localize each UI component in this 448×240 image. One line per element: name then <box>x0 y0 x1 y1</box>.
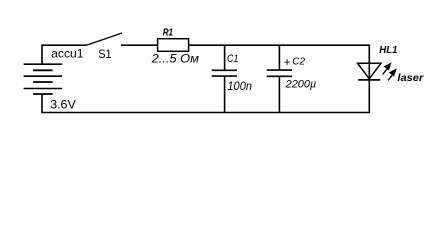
LED HL1 light arrow 1 <box>383 64 391 75</box>
LED HL1 cathode bar <box>358 79 380 81</box>
svg-text:C2: C2 <box>292 56 305 68</box>
capacitor C1 bottom plate <box>212 75 237 77</box>
capacitor C1 top plate <box>212 69 237 71</box>
svg-text:R1: R1 <box>163 27 174 39</box>
battery accu1 long plate 3 <box>24 88 63 90</box>
battery accu1 long plate 1 <box>24 63 63 65</box>
svg-text:laser: laser <box>397 72 424 84</box>
capacitor C1 top wire <box>224 45 226 70</box>
LED HL1 triangle <box>358 63 382 79</box>
wire switch right contact to resistor <box>121 44 158 46</box>
svg-text:2...5 Ом: 2...5 Ом <box>151 54 199 66</box>
battery accu1 long plate 2 <box>24 75 63 77</box>
battery accu1 short plate 2 <box>33 81 53 83</box>
capacitor C2 top plate <box>267 69 292 71</box>
capacitor C2 bottom plate <box>267 75 292 77</box>
LED HL1 light arrow 2 <box>388 70 396 81</box>
svg-text:C1: C1 <box>227 53 238 65</box>
LED HL1 cathode wire <box>368 80 370 113</box>
capacitor C2 top wire <box>278 45 280 70</box>
battery accu1 short plate 3 <box>33 93 53 95</box>
wire bottom rail <box>41 112 370 114</box>
switch S1 lever <box>86 33 122 45</box>
svg-text:2200µ: 2200µ <box>285 78 317 90</box>
LED HL1 anode wire <box>368 45 370 79</box>
svg-text:3.6V: 3.6V <box>50 97 76 111</box>
wire top rail left segment <box>41 44 86 46</box>
svg-text:S1: S1 <box>98 47 112 61</box>
capacitor C1 bottom wire <box>224 76 226 112</box>
svg-text:+: + <box>284 57 291 69</box>
svg-text:accu1: accu1 <box>51 47 84 61</box>
battery accu1 bottom wire <box>41 94 43 113</box>
svg-text:100n: 100n <box>227 79 252 93</box>
wire resistor to LED corner (top rail right segment) <box>189 44 371 46</box>
battery accu1 short plate 1 <box>33 69 53 71</box>
battery accu1 top wire <box>41 45 43 64</box>
capacitor C2 bottom wire <box>278 76 280 112</box>
resistor R1 body <box>158 39 189 52</box>
svg-text:HL1: HL1 <box>379 44 397 56</box>
